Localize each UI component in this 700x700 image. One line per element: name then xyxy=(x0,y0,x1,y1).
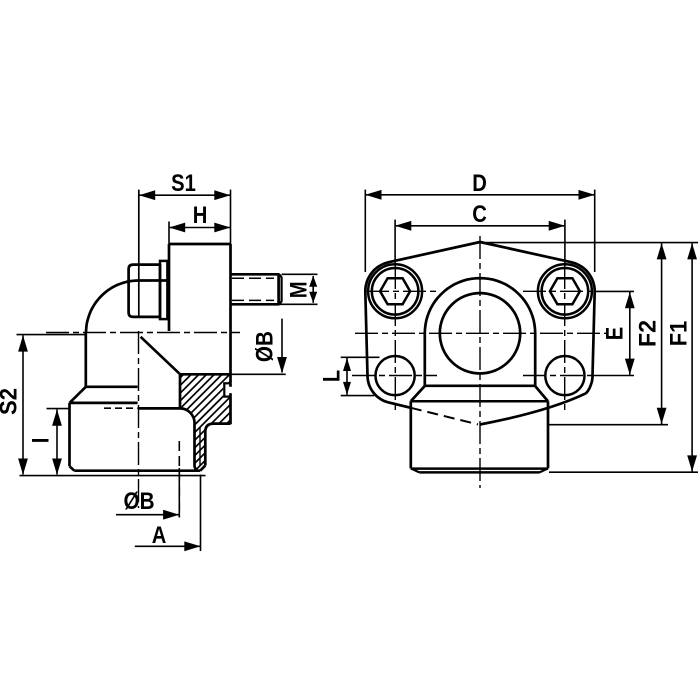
dim C extension right xyxy=(564,220,566,266)
dim OB upper extension xyxy=(231,373,286,375)
pipe bottom chamfer right xyxy=(540,468,549,472)
port bottom chamfer left xyxy=(70,466,75,471)
dim M arrow top xyxy=(309,276,317,287)
dim C arrow right xyxy=(549,221,565,231)
flange bottom edge hidden left xyxy=(411,408,478,425)
dim H extension left xyxy=(168,222,170,245)
dim A line xyxy=(135,545,201,547)
dim OB lower extension xyxy=(178,441,180,518)
port thread root line xyxy=(199,428,201,467)
dim D extension left xyxy=(364,190,366,272)
svg-text:E: E xyxy=(602,327,629,340)
dim bottom extension line xyxy=(20,475,206,477)
dim I extension top xyxy=(47,408,70,410)
dim L arrow top xyxy=(343,358,351,371)
dim C extension left xyxy=(394,220,396,266)
bolt hole lower-left xyxy=(376,356,415,395)
stud thread root lower xyxy=(232,299,274,301)
dim F1 line xyxy=(691,243,693,471)
dim F2 line xyxy=(661,243,663,424)
dim F1 arrow bottom xyxy=(687,455,697,471)
pipe bottom chamfer left xyxy=(411,468,420,472)
dim D arrow left xyxy=(365,190,381,200)
dim D arrow right xyxy=(579,190,595,200)
dim OB upper arrow xyxy=(277,357,287,373)
elbow bend outer arc xyxy=(86,281,139,334)
centerline horizontal axis left view xyxy=(46,332,240,334)
dim M arrow bottom xyxy=(309,292,317,303)
flange plate top edge xyxy=(169,243,231,246)
pipe bottom end face edge xyxy=(419,471,539,474)
dim S1 extension right xyxy=(230,190,232,244)
svg-text:C: C xyxy=(472,201,487,228)
dim D extension right xyxy=(594,190,596,272)
elbow bend left edge xyxy=(84,333,87,387)
svg-text:I: I xyxy=(28,438,55,444)
port shoulder lower edge xyxy=(70,402,138,405)
dim S2 line xyxy=(22,335,24,474)
dim I arrow top xyxy=(52,410,62,426)
dim D line xyxy=(365,194,594,196)
dim S1 line xyxy=(139,194,231,196)
dim OB lower arrow xyxy=(163,510,179,520)
pipe right edge xyxy=(547,401,550,468)
centerline flange vertical axis xyxy=(479,236,481,488)
stud M outline xyxy=(231,274,279,304)
cone transition line xyxy=(141,337,180,374)
centerline bolt row right xyxy=(523,290,594,292)
port shoulder upper edge xyxy=(86,385,138,388)
dim S1 arrow left xyxy=(139,190,155,200)
o-ring groove xyxy=(223,383,232,396)
dim A arrow xyxy=(184,541,200,551)
bolt U-left head xyxy=(368,264,422,318)
section bore bottom edge xyxy=(180,373,231,376)
svg-text:L: L xyxy=(319,370,346,382)
dim H arrow left xyxy=(169,223,185,233)
dim A extension xyxy=(200,475,202,552)
svg-text:S2: S2 xyxy=(0,388,23,415)
dim OB lower line xyxy=(116,514,179,516)
bolt head facet + S1 extension line xyxy=(138,190,140,317)
flange outline left half xyxy=(365,242,480,408)
bolt washer side view xyxy=(160,261,167,319)
centerline flange horizontal axis xyxy=(355,332,607,334)
dim E arrow bottom xyxy=(625,359,635,375)
svg-text:ØB: ØB xyxy=(124,488,155,515)
centerline bolt row left xyxy=(366,290,437,292)
svg-text:ØB: ØB xyxy=(251,331,278,362)
dim F2 extension bottom xyxy=(549,424,669,426)
svg-text:H: H xyxy=(193,202,208,229)
port left edge xyxy=(68,403,71,466)
dim L extension bottom xyxy=(341,395,374,397)
section cavity shoulder edge xyxy=(139,407,181,410)
dim E arrow top xyxy=(625,292,635,308)
flange bottom edge right curve xyxy=(480,393,586,424)
section inner step fillet xyxy=(180,408,197,470)
dim S1 arrow right xyxy=(214,190,230,200)
stud end cap xyxy=(279,274,282,304)
elbow cylinder top line xyxy=(139,279,170,282)
dim F1 arrow top xyxy=(687,243,697,259)
centerline bolt column right xyxy=(564,266,566,412)
dim I arrow bottom xyxy=(52,459,62,475)
flange plate left edge xyxy=(168,244,171,331)
dim S2 arrow top xyxy=(18,335,28,351)
dim E extension bottom xyxy=(592,375,634,377)
centerline vertical port axis left view xyxy=(138,331,140,508)
central bore circle xyxy=(440,293,520,373)
dim C line xyxy=(395,225,565,227)
dim H arrow right xyxy=(214,223,230,233)
dim I line xyxy=(56,410,58,475)
dim OB upper leader xyxy=(281,319,283,373)
svg-text:F2: F2 xyxy=(635,320,662,347)
dim F2 arrow top xyxy=(657,243,667,259)
centerline hole row left xyxy=(352,375,437,377)
dim L arrow bottom xyxy=(343,382,351,395)
dim E line xyxy=(629,292,631,375)
dim M extension bottom xyxy=(233,303,318,305)
dim E extension top xyxy=(594,290,635,292)
stud thread root upper xyxy=(232,277,274,279)
dim F1 extension bottom xyxy=(549,471,698,473)
pipe left edge xyxy=(409,401,412,468)
dim F top extension line xyxy=(486,242,698,244)
section bore right wall xyxy=(179,374,182,409)
dim M line xyxy=(312,276,314,303)
central boss outline xyxy=(425,278,535,386)
port shoulder chamfer xyxy=(70,387,86,403)
centerline hole row right xyxy=(523,375,592,377)
svg-text:D: D xyxy=(472,170,487,197)
pipe top edge xyxy=(411,400,548,403)
dim M extension top xyxy=(282,273,318,275)
hidden thread-end line xyxy=(104,407,138,409)
dim L extension top xyxy=(341,356,380,358)
svg-text:M: M xyxy=(286,281,313,298)
pipe hub trapezoid xyxy=(411,386,548,401)
dim C arrow left xyxy=(395,221,411,231)
dim H line xyxy=(169,227,231,229)
flange plate bottom edge xyxy=(205,424,230,466)
dim L line xyxy=(346,358,348,395)
centerline bolt column left xyxy=(394,266,396,412)
dim S2 extension top xyxy=(17,334,87,336)
dim OB lower extension solid xyxy=(178,468,180,518)
bolt U-right head xyxy=(538,264,592,318)
bolt hole lower-right xyxy=(545,356,584,395)
port thread chamfer right xyxy=(200,466,205,471)
svg-text:A: A xyxy=(152,522,167,549)
svg-text:S1: S1 xyxy=(171,170,196,197)
dim F2 arrow bottom xyxy=(657,408,667,424)
flange plate right face edge xyxy=(229,244,232,424)
pipe bottom edge upper xyxy=(411,467,548,470)
dim S2 arrow bottom xyxy=(18,459,28,475)
svg-text:F1: F1 xyxy=(666,321,693,347)
bolt head side view xyxy=(129,265,160,317)
flange outline right half xyxy=(480,242,595,393)
port bottom edge xyxy=(74,469,200,472)
